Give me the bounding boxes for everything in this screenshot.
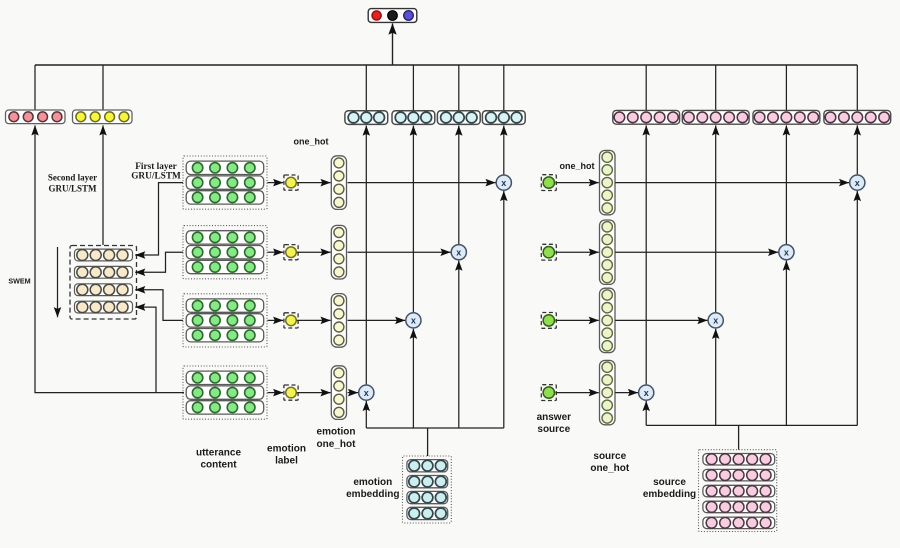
source embedding row 1 (pink circles) xyxy=(703,454,775,466)
answer source circle 4 (green, dashed) xyxy=(541,385,556,401)
wire: trunk down to weighted box 1 xyxy=(503,65,505,111)
output box (red/black/blue softmax output) xyxy=(368,9,417,23)
wire: multiplier node 1 up to weighted box 1 xyxy=(503,126,505,175)
label: utterance content xyxy=(196,448,241,471)
utterance block 2 (green GRU/LSTM cells) xyxy=(183,226,267,279)
svg-text:emotion: emotion xyxy=(317,427,356,438)
wire: emotion embedding bus up to multiplier node 2 xyxy=(458,261,460,428)
weighted source box 1 (pink circles) xyxy=(613,110,680,124)
wire: utterance4 row to second-layer red box (long elbow) xyxy=(35,125,184,392)
svg-text:x: x xyxy=(364,388,369,398)
wire: source embedding bus up to right multiplier node 1 xyxy=(856,191,858,425)
wire: emotion label 2 to emotion one_hot column 2 xyxy=(297,251,331,253)
wire: utterance2 to emotion label 2 xyxy=(268,251,284,253)
emotion embedding row 3 (cyan circles) xyxy=(407,491,448,503)
emotion one_hot column 2 (pale yellow) xyxy=(331,225,346,279)
wire: trunk down to weighted source box 3 xyxy=(715,65,717,110)
source one_hot column 4 (pale green) xyxy=(600,360,616,424)
svg-text:embedding: embedding xyxy=(346,489,399,500)
weighted emotion box 3 (cyan circles) xyxy=(437,111,480,125)
svg-text:one_hot: one_hot xyxy=(560,161,595,171)
label: source one_hot xyxy=(590,451,630,474)
wire: right multiplier node 2 up to weighted source box 2 xyxy=(785,125,787,244)
source one_hot column 2 (pale green) xyxy=(600,220,616,284)
svg-text:x: x xyxy=(501,178,506,188)
wire: SWEM box up to second-layer yellow box xyxy=(102,125,104,245)
emotion embedding row 2 (cyan circles) xyxy=(407,476,448,488)
svg-text:answer: answer xyxy=(537,412,572,423)
wire: emotion label 1 to emotion one_hot column 1 xyxy=(297,182,331,184)
multiplier node x4 (right) xyxy=(639,385,654,400)
SWEM dashed container box xyxy=(70,246,137,320)
wire: trunk down to weighted box 3 xyxy=(412,65,414,111)
answer source circle 2 (green, dashed) xyxy=(541,244,556,260)
wire: source one_hot column 4 to right multiplier node 4 xyxy=(615,392,638,394)
multiplier node x3 (left) xyxy=(406,313,421,328)
wire: emotion one_hot column 4 to multiplier node 4 xyxy=(348,392,359,394)
weighted source box 2 (pink circles) xyxy=(682,110,749,124)
svg-text:one_hot: one_hot xyxy=(294,137,329,147)
wire: trunk down to weighted source box 2 xyxy=(785,65,787,110)
emotion one_hot column 4 (pale yellow) xyxy=(331,366,346,420)
svg-text:First layer: First layer xyxy=(135,162,177,172)
SWEM row 2 (tan circles) xyxy=(75,266,133,278)
emotion embedding row 1 (cyan circles) xyxy=(407,460,448,472)
svg-text:Second layer: Second layer xyxy=(48,172,97,182)
wire: emotion label 4 to emotion one_hot column 4 xyxy=(297,392,331,394)
svg-text:emotion: emotion xyxy=(267,444,306,455)
wire: source embedding bus up to right multiplier node 2 xyxy=(785,261,787,426)
SWEM row 1 (tan circles) xyxy=(75,249,133,261)
answer source circle 3 (green, dashed) xyxy=(541,313,556,329)
wire: emotion one_hot column 3 to multiplier node 3 xyxy=(348,319,406,321)
wire: utterance2 to SWEM row2 xyxy=(135,252,183,272)
wire: source embedding up to bus xyxy=(738,425,740,449)
label: emotion label xyxy=(267,444,306,467)
emotion one_hot column 3 (pale yellow) xyxy=(331,294,346,348)
emotion label circle 2 (yellow, dashed) xyxy=(284,245,298,260)
svg-text:x: x xyxy=(411,316,416,326)
wire: utterance4 branch to SWEM row4 xyxy=(135,307,156,393)
second layer box B (yellow circles) xyxy=(73,110,133,124)
wire: SWEM down arrow xyxy=(57,247,59,317)
svg-text:source: source xyxy=(653,477,686,488)
wire: utterance1 to SWEM row1 xyxy=(135,183,183,255)
wire: source embedding bus up to right multiplier node 3 xyxy=(715,329,717,426)
source embedding row 2 (pink circles) xyxy=(703,469,775,481)
SWEM row 3 (tan circles) xyxy=(75,284,133,296)
multiplier node x4 (left) xyxy=(359,385,374,400)
emotion embedding dotted box xyxy=(403,456,452,523)
wire: answer source 2 to source one_hot column 2 xyxy=(556,251,599,253)
weighted emotion box 4 (cyan circles) xyxy=(482,111,525,125)
source embedding row 3 (pink circles) xyxy=(703,485,775,497)
svg-text:x: x xyxy=(456,247,461,257)
second layer box A (pink circles) xyxy=(6,110,66,124)
svg-text:content: content xyxy=(200,460,237,471)
wire: answer source 4 to source one_hot column 4 xyxy=(556,392,599,394)
svg-text:x: x xyxy=(713,316,718,326)
weighted emotion box 1 (cyan circles) xyxy=(345,111,388,125)
svg-text:embedding: embedding xyxy=(643,489,696,500)
multiplier node x1 (right) xyxy=(850,175,865,190)
label: emotion one_hot xyxy=(317,427,357,450)
wire: emotion embedding bus up to multiplier node 1 xyxy=(503,191,505,428)
svg-text:source: source xyxy=(593,451,626,462)
source embedding row 4 (pink circles) xyxy=(703,501,775,513)
weighted emotion box 2 (cyan circles) xyxy=(392,111,435,125)
emotion label circle 3 (yellow, dashed) xyxy=(284,313,298,328)
wire: emotion one_hot column 1 to multiplier node 1 xyxy=(348,182,496,184)
multiplier node x1 (left) xyxy=(496,175,511,190)
weighted source box 3 (pink circles) xyxy=(753,110,820,124)
utterance block 4 (green GRU/LSTM cells) xyxy=(183,366,267,419)
wire: utterance3 to emotion label 3 xyxy=(268,319,284,321)
wire: answer source 3 to source one_hot column 3 xyxy=(556,319,599,321)
utterance block 3 (green GRU/LSTM cells) xyxy=(183,294,267,347)
svg-text:one_hot: one_hot xyxy=(317,439,357,450)
answer source circle 1 (green, dashed) xyxy=(541,175,556,191)
wire: utterance1 to emotion label 1 xyxy=(268,182,284,184)
wire: source one_hot column 2 to right multiplier node 2 xyxy=(615,251,778,253)
wire: utterance4 to emotion label 4 xyxy=(268,392,284,394)
wire: multiplier node 3 up to weighted box 3 xyxy=(412,126,414,313)
svg-text:GRU/LSTM: GRU/LSTM xyxy=(48,183,97,193)
wire: left bottom bus joining multiplier inputs xyxy=(366,427,504,429)
wire: multiplier node 4 up to weighted box 4 xyxy=(365,126,367,385)
emotion embedding row 4 (cyan circles) xyxy=(407,507,448,519)
multiplier node x3 (right) xyxy=(708,313,723,328)
wire: trunk down to weighted source box 4 xyxy=(645,65,647,110)
svg-text:x: x xyxy=(855,178,860,188)
wire: emotion embedding up to bus xyxy=(427,428,429,456)
wire: right multiplier node 4 up to weighted source box 4 xyxy=(645,125,647,384)
wire: emotion embedding bus up to multiplier node 4 xyxy=(365,401,367,428)
wire: arrow from trunk to output box xyxy=(392,23,394,64)
wire: trunk down to weighted box 2 xyxy=(458,65,460,111)
wire: answer source 1 to source one_hot column 1 xyxy=(556,182,599,184)
wire: right multiplier node 3 up to weighted source box 3 xyxy=(715,125,717,312)
wire: emotion embedding bus up to multiplier node 3 xyxy=(412,329,414,428)
emotion label circle 1 (yellow, dashed) xyxy=(284,175,298,190)
svg-text:x: x xyxy=(784,247,789,257)
wire: utterance3 to SWEM row3 xyxy=(135,290,183,321)
svg-text:utterance: utterance xyxy=(196,448,241,459)
wire: trunk down to weighted box 4 xyxy=(365,65,367,111)
utterance block 1 (green GRU/LSTM cells) xyxy=(183,156,267,209)
svg-text:GRU/LSTM: GRU/LSTM xyxy=(131,172,181,182)
svg-text:one_hot: one_hot xyxy=(590,463,630,474)
svg-text:source: source xyxy=(537,424,570,435)
wire: emotion one_hot column 2 to multiplier node 2 xyxy=(348,251,451,253)
source embedding dotted box xyxy=(699,450,777,532)
wire: trunk down to second-layer red box xyxy=(34,65,36,110)
wire: source one_hot column 1 to right multiplier node 1 xyxy=(615,182,849,184)
label: Second layer GRU/LSTM xyxy=(48,172,97,193)
label: First layer GRU/LSTM xyxy=(131,162,181,182)
multiplier node x2 (left) xyxy=(451,245,466,260)
wire: main horizontal trunk bus xyxy=(35,64,857,66)
svg-text:label: label xyxy=(275,456,298,467)
weighted source box 4 (pink circles) xyxy=(824,110,891,124)
wire: trunk down to weighted source box 1 xyxy=(856,65,858,110)
source one_hot column 3 (pale green) xyxy=(600,288,616,352)
wire: trunk down to second-layer yellow box xyxy=(102,65,104,110)
label: source embedding xyxy=(643,477,696,500)
emotion one_hot column 1 (pale yellow) xyxy=(331,156,346,210)
svg-text:SWEM: SWEM xyxy=(8,276,30,285)
wire: source one_hot column 3 to right multiplier node 3 xyxy=(615,319,707,321)
wire: right bottom bus joining multiplier inputs xyxy=(646,424,857,426)
wire: source embedding bus up to right multiplier node 4 xyxy=(645,401,647,425)
label: answer source xyxy=(537,412,572,435)
source embedding row 5 (pink circles) xyxy=(703,517,775,529)
multiplier node x2 (right) xyxy=(779,245,794,260)
source one_hot column 1 (pale green) xyxy=(600,150,616,214)
wire: emotion label 3 to emotion one_hot column 3 xyxy=(297,319,331,321)
svg-text:emotion: emotion xyxy=(353,477,392,488)
emotion label circle 4 (yellow, dashed) xyxy=(284,385,298,400)
SWEM row 4 (tan circles) xyxy=(75,301,133,313)
svg-text:x: x xyxy=(644,388,649,398)
wire: multiplier node 2 up to weighted box 2 xyxy=(458,126,460,244)
label: emotion embedding xyxy=(346,477,399,500)
wire: right multiplier node 1 up to weighted source box 1 xyxy=(856,125,858,174)
